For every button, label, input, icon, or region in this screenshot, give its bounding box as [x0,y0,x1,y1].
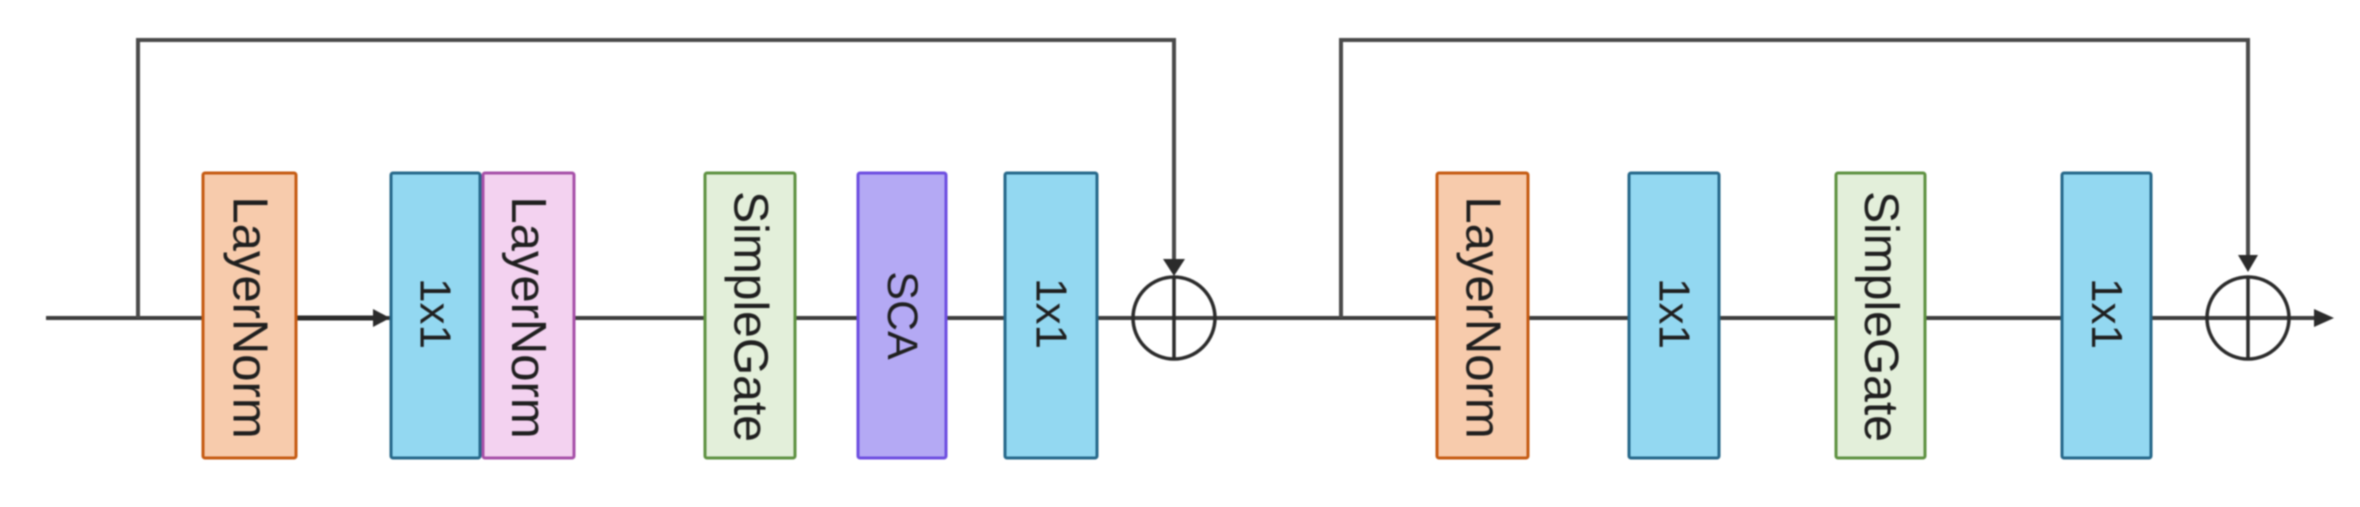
svg-text:SimpleGate: SimpleGate [724,191,777,442]
svg-text:1x1: 1x1 [1027,278,1076,349]
svg-text:SCA: SCA [878,271,926,360]
svg-text:LayerNorm: LayerNorm [1456,196,1510,438]
svg-text:LayerNorm: LayerNorm [223,196,277,438]
svg-text:1x1: 1x1 [2082,278,2131,349]
svg-text:LayerNorm: LayerNorm [501,196,555,438]
svg-text:1x1: 1x1 [411,278,460,349]
svg-text:SimpleGate: SimpleGate [1854,191,1907,442]
svg-text:1x1: 1x1 [1650,278,1699,349]
